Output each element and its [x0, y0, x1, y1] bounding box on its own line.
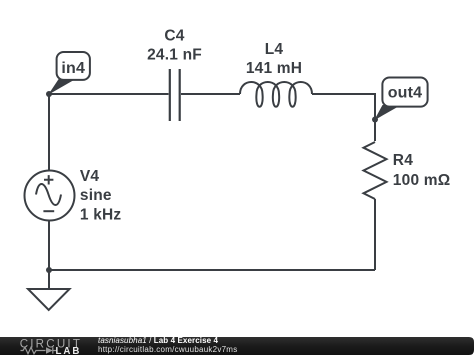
svg-text:1 kHz: 1 kHz — [80, 206, 122, 223]
svg-text:R4: R4 — [393, 152, 413, 169]
svg-text:http://circuitlab.com/cwuubauk: http://circuitlab.com/cwuubauk2v7ms — [98, 345, 237, 354]
svg-text:L4: L4 — [265, 41, 284, 58]
svg-text:24.1 nF: 24.1 nF — [147, 47, 202, 64]
svg-text:141 mH: 141 mH — [246, 60, 302, 77]
svg-text:C4: C4 — [164, 28, 184, 45]
svg-text:out4: out4 — [388, 85, 423, 102]
svg-text:sine: sine — [80, 187, 112, 204]
svg-text:100 mΩ: 100 mΩ — [393, 172, 451, 189]
svg-text:in4: in4 — [61, 60, 85, 77]
svg-text:tasniasubha1 / Lab 4 Exercise: tasniasubha1 / Lab 4 Exercise 4 — [98, 336, 219, 345]
svg-text:V4: V4 — [80, 168, 100, 185]
svg-text:LAB: LAB — [56, 346, 82, 355]
